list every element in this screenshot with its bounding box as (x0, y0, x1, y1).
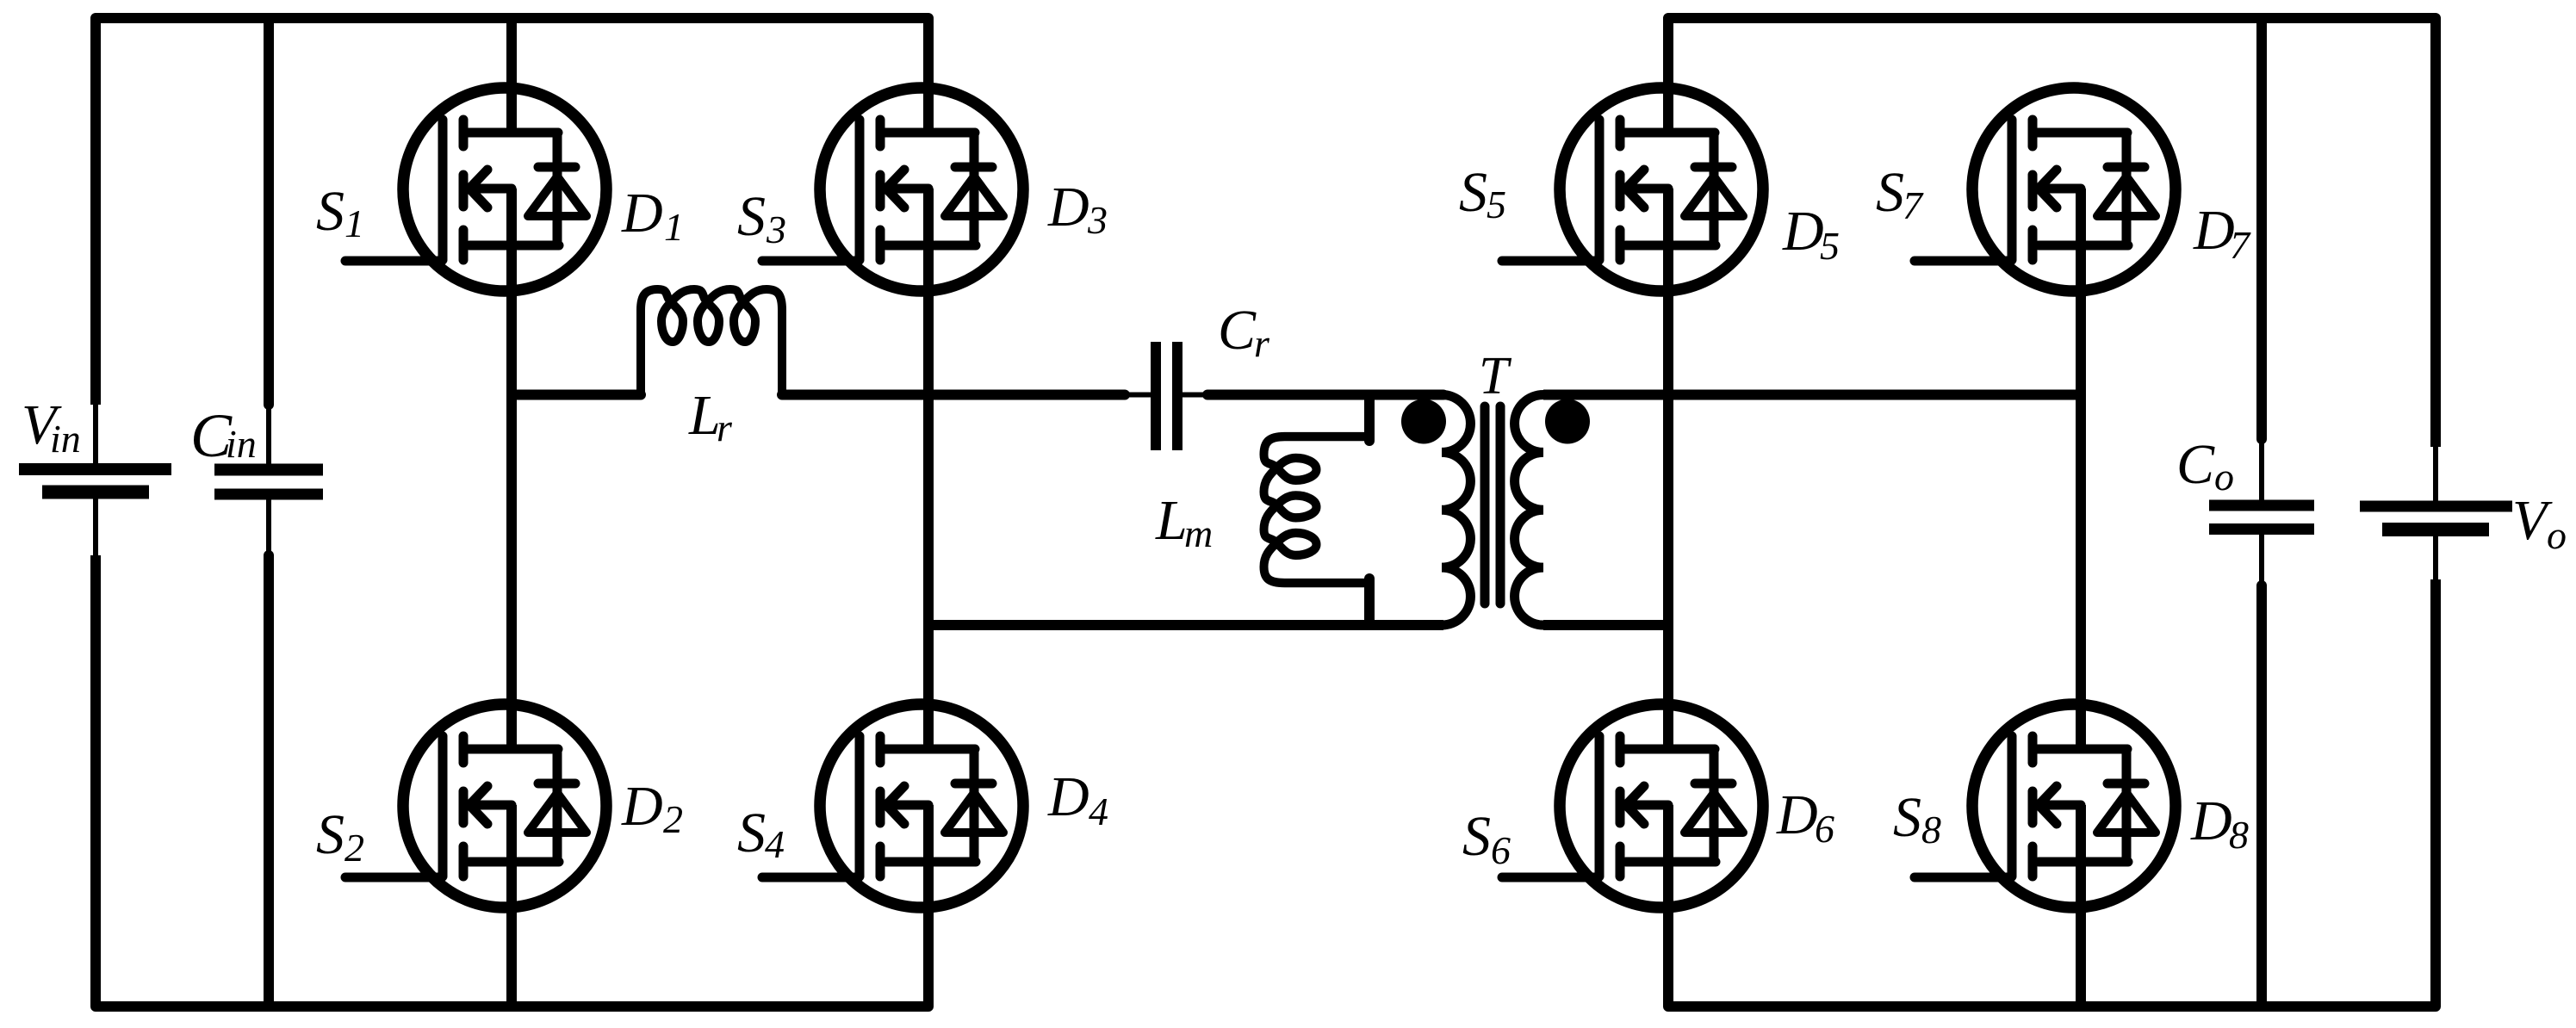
svg-text:1: 1 (345, 201, 364, 245)
svg-text:r: r (717, 406, 733, 449)
svg-text:S: S (1876, 161, 1904, 224)
svg-text:o: o (2214, 455, 2234, 499)
wire: secondary bottom to S5/S6 midpoint (1543, 620, 1668, 630)
svg-text:r: r (1254, 321, 1270, 365)
transformer T core (1480, 406, 1490, 604)
svg-text:C: C (1218, 299, 1257, 362)
svg-text:D: D (1782, 200, 1824, 263)
svg-text:L: L (1155, 489, 1188, 552)
svg-text:S: S (316, 803, 345, 866)
capacitor Cin (214, 18, 323, 1006)
svg-text:2: 2 (345, 826, 364, 870)
svg-text:S: S (1893, 786, 1921, 849)
transistor S2 (MOSFET with body diode D2) (345, 704, 606, 907)
transformer polarity dot (primary) (1401, 399, 1446, 444)
inductor Lm (transposed Lr) (1264, 437, 1370, 583)
transistor S7 (MOSFET with body diode D7) (1915, 88, 2176, 291)
wire: junction stub down to Lm (top) (1364, 395, 1375, 442)
svg-text:o: o (2547, 513, 2567, 557)
svg-text:4: 4 (765, 822, 785, 866)
wire: Lr to Cr (782, 390, 1125, 400)
svg-text:4: 4 (1089, 790, 1108, 833)
svg-text:8: 8 (1921, 808, 1941, 852)
svg-text:3: 3 (766, 207, 786, 251)
svg-text:7: 7 (1903, 183, 1924, 227)
wire: S3/S4 bridge leg (midpoint node) (923, 189, 934, 749)
svg-text:in: in (226, 422, 257, 466)
inductor Lr (641, 289, 782, 395)
battery Vo (2360, 447, 2512, 579)
svg-text:D: D (2193, 199, 2235, 262)
wire: S1/S2 bridge leg (midpoint node) (506, 189, 517, 749)
svg-text:2: 2 (663, 797, 683, 841)
svg-text:D: D (2190, 790, 2232, 852)
wire: transformer primary bottom to S3/S4 midpoint (928, 620, 1443, 630)
transistor S1 (MOSFET with body diode D1) (345, 88, 606, 291)
wire: S8 source to bottom bus (2076, 805, 2086, 1006)
svg-text:S: S (1459, 161, 1487, 224)
wire: S2 source to bottom bus (506, 805, 517, 1006)
svg-text:T: T (1479, 347, 1512, 406)
wire: S5/S6 bridge leg (midpoint node) (1663, 189, 1673, 749)
wire: S7/S8 bridge leg (midpoint node) (2076, 189, 2086, 749)
wire: top bus to S1 drain (506, 18, 517, 133)
svg-text:C: C (2176, 433, 2215, 496)
battery Vin (19, 405, 171, 555)
capacitor Cr (1125, 342, 1207, 450)
svg-text:D: D (1047, 176, 1089, 238)
svg-text:S: S (737, 185, 766, 248)
svg-text:D: D (1776, 783, 1818, 846)
wire: Lm bottom stub (1364, 579, 1375, 625)
svg-text:1: 1 (664, 205, 684, 249)
svg-text:in: in (50, 417, 81, 461)
wire: bottom-left bus (96, 555, 928, 1006)
transistor S5 (MOSFET with body diode D5) (1502, 88, 1763, 291)
svg-text:S: S (737, 802, 766, 864)
transistor S6 (MOSFET with body diode D6) (1502, 704, 1763, 907)
wire: bottom-right bus (1668, 579, 2436, 1006)
svg-text:5: 5 (1487, 183, 1506, 226)
svg-text:S: S (316, 180, 345, 243)
transistor S8 (MOSFET with body diode D8) (1915, 704, 2176, 907)
svg-text:3: 3 (1087, 198, 1108, 242)
wire: top-right bus (1668, 18, 2436, 447)
wire: S6 source to bottom bus (1663, 805, 1673, 1006)
wire: secondary top to S7/S8 midpoint (1543, 390, 2081, 400)
wire: top-left bus (Vin rail to S3/S4 leg) (96, 18, 928, 405)
wire: S1/S2 midpoint to Lr (512, 390, 641, 400)
svg-text:S: S (1462, 805, 1491, 868)
capacitor Co (2209, 18, 2314, 1006)
transistor S3 (MOSFET with body diode D3) (762, 88, 1023, 291)
svg-text:7: 7 (2230, 223, 2251, 267)
wire: Cr to transformer primary top (1207, 390, 1443, 400)
transformer polarity dot (secondary) (1545, 399, 1590, 444)
svg-text:6: 6 (1815, 807, 1834, 851)
transformer T primary winding (1442, 395, 1470, 626)
svg-text:8: 8 (2229, 813, 2249, 857)
svg-text:D: D (1047, 765, 1089, 828)
wire: S4 source to bottom bus (923, 805, 934, 1006)
wire: top bus to S5 drain (1663, 18, 1673, 133)
transformer T secondary winding (1515, 395, 1543, 626)
svg-text:D: D (621, 775, 663, 838)
svg-text:D: D (621, 182, 663, 245)
transistor S4 (MOSFET with body diode D4) (762, 704, 1023, 907)
svg-text:5: 5 (1820, 224, 1840, 268)
svg-text:m: m (1184, 511, 1213, 555)
svg-text:6: 6 (1491, 828, 1511, 872)
